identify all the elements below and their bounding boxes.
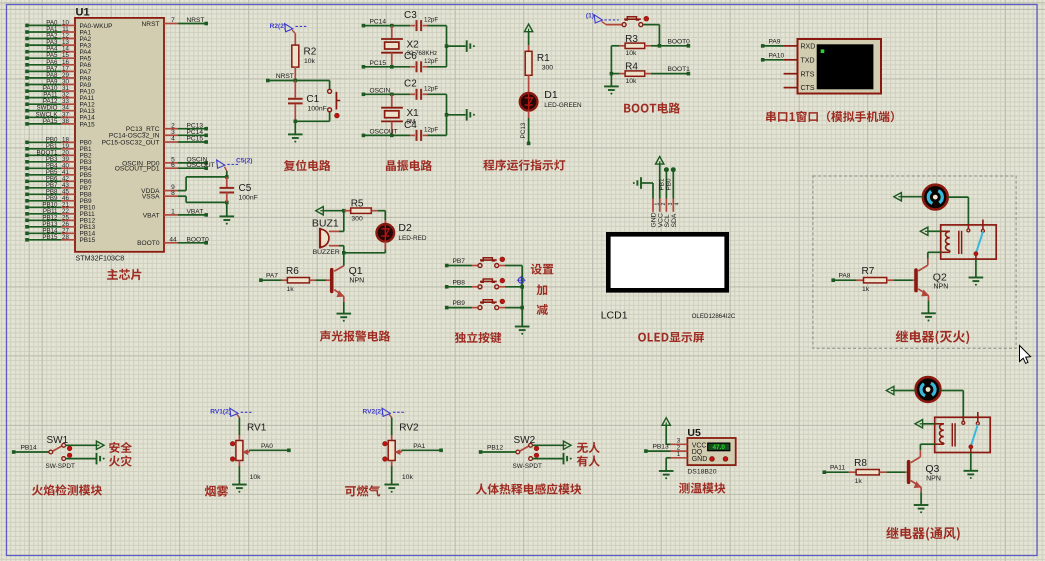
svg-text:PC14: PC14	[370, 19, 387, 26]
svg-text:Q2: Q2	[933, 271, 947, 283]
svg-text:NRST: NRST	[187, 17, 205, 24]
svg-text:C3: C3	[404, 10, 417, 21]
pin PA11 (32) wire	[25, 96, 29, 100]
IC U5 DS18B20 body	[687, 438, 735, 465]
svg-text:28: 28	[62, 234, 69, 241]
svg-text:PB15: PB15	[80, 237, 96, 244]
pin PA4 (14) wire	[25, 50, 29, 54]
pot RV1 to ground	[238, 461, 240, 467]
capacitor C1 100nF	[294, 81, 296, 98]
svg-text:PA1: PA1	[413, 443, 425, 450]
svg-text:OLED12864I2C: OLED12864I2C	[692, 313, 736, 320]
svg-text:LCD1: LCD1	[601, 310, 628, 322]
svg-text:1k: 1k	[862, 286, 870, 293]
label shengguang baojing dianlu	[320, 330, 390, 341]
label chengxu yunxing zhishideng	[483, 159, 565, 170]
power arrow left of R5	[316, 207, 324, 215]
label BOOT dianlu	[624, 102, 680, 113]
switch SW1 SW-SPDT	[49, 450, 53, 454]
svg-text:NPN: NPN	[926, 475, 941, 482]
svg-text:7: 7	[171, 17, 175, 24]
resistor R6 1k	[259, 278, 263, 282]
svg-text:PB0: PB0	[666, 178, 673, 191]
terminal pin RTS	[784, 73, 798, 75]
pin PA7 (17) wire	[25, 70, 29, 74]
svg-text:Q3: Q3	[925, 463, 939, 475]
svg-text:BOOT1: BOOT1	[668, 66, 691, 73]
label jidianqi miehuo	[896, 330, 969, 344]
pin PB14 (27) wire	[25, 232, 29, 236]
svg-text:PB15: PB15	[42, 234, 58, 241]
svg-text:SW-SPDT: SW-SPDT	[513, 463, 542, 470]
svg-text:RV2: RV2	[399, 422, 419, 433]
relay coil	[941, 230, 950, 232]
relay RL1 box	[941, 225, 997, 259]
svg-text:12pF: 12pF	[424, 17, 438, 24]
svg-text:TXD: TXD	[801, 57, 815, 64]
net PB12 wire	[479, 450, 483, 454]
pin OSCIN_PD0 (5)	[164, 162, 178, 164]
svg-text:RV1: RV1	[247, 422, 267, 433]
svg-text:VSSA: VSSA	[142, 194, 160, 201]
svg-text:SDA: SDA	[671, 213, 678, 227]
label anquan	[109, 442, 132, 453]
net PA9 wire	[761, 44, 765, 48]
motor (fan) M1	[923, 185, 948, 210]
svg-text:PC15: PC15	[370, 60, 387, 67]
net PB9 wire	[445, 306, 449, 310]
svg-text:OSCOUT_PD1: OSCOUT_PD1	[115, 166, 160, 173]
svg-text:C6: C6	[404, 51, 417, 62]
pin PB11 (22) wire	[25, 212, 29, 216]
pot RV2 to ground	[391, 461, 393, 467]
svg-text:SW2: SW2	[514, 435, 536, 446]
svg-text:12pF: 12pF	[424, 58, 438, 65]
svg-text:PB8: PB8	[453, 279, 466, 286]
svg-text:47.0: 47.0	[712, 444, 725, 451]
capacitor C4 12pF	[410, 134, 415, 136]
svg-text:LED-GREEN: LED-GREEN	[544, 102, 582, 109]
potentiometer RV1 10k	[238, 418, 240, 436]
power arrow left of motor	[894, 193, 902, 201]
resistor R3 10k	[611, 45, 619, 47]
svg-text:1k: 1k	[287, 286, 295, 293]
capacitor C6 12pF	[410, 66, 415, 68]
ground below Q3	[914, 504, 929, 506]
svg-text:C5: C5	[239, 183, 252, 194]
svg-text:PA7: PA7	[266, 273, 278, 280]
svg-text:PB9: PB9	[453, 300, 466, 307]
svg-text:R8: R8	[854, 458, 867, 469]
pin PB10 (21) wire	[25, 206, 29, 210]
svg-text:R5: R5	[351, 198, 364, 209]
svg-text:OSCOUT: OSCOUT	[187, 162, 215, 169]
pin BOOT1 (20) wire	[25, 154, 29, 158]
svg-text:NRST: NRST	[142, 21, 160, 28]
relay RL2 common to ground	[970, 449, 972, 453]
net PB7 wire	[445, 264, 449, 268]
pin PB13 (26) wire	[25, 225, 29, 229]
ground below Q2	[921, 312, 936, 314]
OLED pin SCL	[665, 199, 667, 212]
svg-text:PB12: PB12	[487, 445, 503, 452]
resistor R1 300	[528, 45, 530, 51]
net PB1 wire (SCL)	[665, 170, 667, 199]
svg-text:PC13: PC13	[520, 122, 527, 138]
power arrow left of RL2 coil	[915, 420, 923, 428]
svg-text:BUZ1: BUZ1	[312, 218, 339, 230]
net PA1 wire	[402, 449, 442, 451]
power arrow left of motor M2	[886, 386, 894, 394]
svg-text:U1: U1	[76, 7, 90, 19]
temperature readout display	[708, 443, 730, 451]
push button PB7	[472, 265, 478, 267]
pin PA6 (16) wire	[25, 63, 29, 67]
svg-text:PA9: PA9	[769, 39, 781, 46]
svg-text:VBAT: VBAT	[143, 212, 160, 219]
pin PB8 (45) wire	[25, 193, 29, 197]
svg-text:PB14: PB14	[21, 445, 37, 452]
svg-text:PA8: PA8	[839, 273, 851, 280]
net PB8 wire	[445, 285, 449, 289]
mouse cursor	[1020, 346, 1031, 364]
svg-text:X1: X1	[407, 108, 420, 119]
svg-text:12pF: 12pF	[424, 85, 438, 92]
wire button to C1 bottom	[294, 120, 298, 124]
pin PB9 (46) wire	[25, 199, 29, 203]
terminal pin RXD	[784, 45, 798, 47]
OLED GND wire to ground	[652, 183, 654, 199]
pin PA2 (12) wire	[25, 37, 29, 41]
dashed selection box	[813, 176, 1016, 348]
label huozai	[109, 455, 132, 466]
svg-text:4: 4	[171, 136, 175, 143]
pin PA5 (15) wire	[25, 56, 29, 60]
transistor Q1 NPN	[343, 253, 345, 266]
svg-text:C2: C2	[404, 79, 417, 90]
label jia	[537, 284, 548, 295]
svg-text:PA15: PA15	[80, 121, 96, 128]
OLED pin VCC	[659, 199, 661, 212]
svg-text:BUZZER: BUZZER	[313, 249, 340, 256]
svg-text:PC15: PC15	[187, 136, 204, 143]
net BOOT0 wire	[659, 45, 688, 47]
pin PB3 (39) wire	[25, 160, 29, 164]
svg-text:X2: X2	[407, 40, 420, 51]
ground below C5	[226, 202, 228, 216]
svg-text:1: 1	[171, 209, 175, 216]
svg-text:PA15: PA15	[43, 118, 58, 125]
wire R3 to R4	[610, 46, 612, 74]
net PC15 wire	[362, 65, 366, 69]
terminal pin TXD	[784, 59, 798, 61]
IC U1 STM32F103C8 body	[75, 18, 164, 252]
label OLED xianshiping	[638, 332, 704, 343]
pin PA3 (13) wire	[25, 43, 29, 47]
net NRST wire	[266, 79, 270, 83]
relay RL2 coil	[935, 423, 944, 425]
wire motor to relay	[948, 196, 969, 198]
label wuren	[577, 442, 600, 453]
net PC14 wire	[362, 24, 366, 28]
svg-text:6: 6	[171, 162, 175, 169]
buzzer BUZ1	[343, 211, 345, 232]
capacitor C5 100nF	[225, 175, 229, 179]
label 烟雾	[205, 485, 228, 496]
wire SW1 to ground (rotated)	[66, 458, 96, 460]
svg-text:10k: 10k	[250, 474, 262, 481]
relay RL2 contact pins	[962, 417, 964, 421]
wire D1 to PC13 net	[528, 111, 530, 118]
svg-text:38: 38	[62, 118, 69, 125]
indicator dots on U5	[710, 457, 715, 462]
net PA0 wire	[249, 449, 289, 451]
label jidianqi tongfeng	[886, 527, 959, 541]
svg-text:4: 4	[675, 203, 681, 206]
svg-text:10k: 10k	[626, 78, 638, 85]
pin PA12 (33) wire	[25, 102, 29, 106]
wire to reset button	[329, 81, 331, 90]
label chuankou1 chuangkou	[766, 111, 894, 122]
power arrow left of coil	[920, 227, 928, 235]
pin PB0 (18) wire	[25, 141, 29, 145]
svg-text:BOOT0: BOOT0	[137, 240, 160, 247]
crystal X1 8M	[391, 94, 393, 107]
svg-text:LED-RED: LED-RED	[398, 235, 426, 242]
resistor R8 1k	[823, 470, 827, 474]
transistor Q2 NPN	[928, 251, 941, 253]
svg-text:GND: GND	[692, 456, 708, 463]
resistor R2 10k	[294, 34, 296, 46]
pin PB1 (19) wire	[25, 147, 29, 151]
push button (BOOT)	[606, 24, 622, 26]
pin PA10 (31) wire	[25, 89, 29, 93]
U5 pin 3 VCC wire to power	[671, 443, 688, 445]
svg-text:RV2(2): RV2(2)	[363, 409, 384, 416]
pin PB12 (25) wire	[25, 219, 29, 223]
pin PB5 (41) wire	[25, 173, 29, 177]
label shezhi	[531, 264, 554, 275]
label renti mokuai	[476, 483, 582, 494]
relay RL2 lever (cyan)	[971, 424, 978, 446]
push button PB9	[472, 307, 478, 309]
resistor R4 10k	[611, 73, 619, 75]
pin PB15 (28) wire	[25, 238, 29, 242]
wire SW1 to power arrow	[66, 444, 96, 446]
svg-text:RV1(2): RV1(2)	[210, 409, 231, 416]
relay common to ground	[975, 256, 977, 260]
svg-text:R3: R3	[625, 34, 638, 45]
svg-text:SW1: SW1	[47, 435, 69, 446]
pin VSSA (8) wire to C5	[164, 195, 178, 197]
wire SW2 to power arrow	[533, 444, 564, 446]
svg-text:C5(2): C5(2)	[236, 158, 253, 165]
svg-text:D1: D1	[544, 89, 558, 101]
svg-text:C4: C4	[404, 120, 417, 131]
svg-text:PA10: PA10	[769, 53, 785, 60]
wire caps to ground	[446, 26, 448, 67]
svg-text:8: 8	[171, 190, 175, 197]
ground (rotated)	[466, 109, 468, 121]
U5 pin 1 GND wire to ground	[671, 457, 688, 459]
terminal pin CTS	[784, 87, 798, 89]
svg-text:(1): (1)	[586, 13, 594, 20]
svg-text:Q1: Q1	[349, 265, 363, 277]
svg-text:PB13: PB13	[653, 444, 669, 451]
LED D1 LED-GREEN	[520, 93, 538, 111]
svg-text:1: 1	[677, 451, 681, 458]
svg-text:300: 300	[351, 215, 363, 222]
svg-text:RXD: RXD	[801, 44, 816, 51]
button bus wire	[521, 266, 523, 327]
svg-text:100nF: 100nF	[308, 105, 327, 112]
ground (rotated)	[466, 40, 468, 52]
push button (reset)	[328, 89, 332, 93]
wire button to BOOT0 node	[643, 24, 660, 26]
svg-text:BOOT0: BOOT0	[187, 236, 210, 243]
net PB14 wire	[12, 450, 16, 454]
power arrow above R1	[524, 24, 532, 32]
wire motor M2 to relay	[941, 390, 964, 392]
label fuweidianlu	[284, 160, 331, 171]
pin SWCLK (37) wire	[25, 116, 29, 120]
svg-text:STM32F103C8: STM32F103C8	[76, 253, 125, 262]
svg-text:100nF: 100nF	[239, 195, 258, 202]
svg-text:U5: U5	[687, 427, 701, 439]
svg-text:R2: R2	[304, 47, 317, 58]
svg-text:12pF: 12pF	[424, 126, 438, 133]
pin PC13 (2)	[164, 128, 178, 130]
net OSCOUT wire	[362, 134, 366, 138]
ground below R3/R4 node	[610, 74, 612, 87]
net PA10 wire	[761, 58, 765, 62]
label huoyan jiance mokuai	[32, 484, 102, 495]
svg-text:10k: 10k	[304, 58, 316, 65]
LED D2 LED-RED	[384, 211, 386, 220]
svg-text:BOOT0: BOOT0	[668, 38, 691, 45]
label cewen mokuai	[679, 482, 726, 493]
label 可燃气	[345, 485, 380, 496]
resistor R5 300	[344, 210, 351, 212]
capacitor C2 12pF	[410, 93, 415, 95]
svg-text:R2(2): R2(2)	[270, 23, 287, 30]
svg-text:R4: R4	[625, 62, 638, 73]
junction node	[342, 251, 346, 255]
svg-text:R7: R7	[862, 266, 875, 277]
svg-text:NRST: NRST	[276, 73, 294, 80]
svg-text:D2: D2	[398, 222, 412, 234]
net PB0 wire (SDA)	[672, 170, 674, 199]
wire SW2 to ground (rotated)	[533, 458, 564, 460]
svg-text:CTS: CTS	[801, 85, 815, 92]
pin PC14 (3)	[164, 134, 178, 136]
potentiometer RV2 10k	[391, 418, 393, 436]
LCD1 OLED display body	[608, 234, 726, 290]
pin PC15 (4)	[164, 141, 178, 143]
svg-text:R6: R6	[286, 266, 299, 277]
pin PB7 (43) wire	[25, 186, 29, 190]
OLED pin GND	[652, 199, 654, 212]
ground below Q1	[337, 313, 352, 315]
svg-text:300: 300	[542, 65, 554, 72]
pin PA9 (30) wire	[25, 83, 29, 87]
motor (fan) M2	[916, 377, 941, 402]
wire caps to ground	[446, 94, 448, 135]
blue origin marker	[518, 277, 524, 283]
pin NRST (7)	[164, 23, 178, 25]
transistor Q3 NPN	[920, 443, 934, 445]
pin PB6 (42) wire	[25, 180, 29, 184]
relay lever (cyan)	[976, 232, 983, 253]
pin PA0 (10) wire	[25, 24, 29, 28]
svg-text:NPN: NPN	[349, 277, 364, 284]
pin PA1 (11) wire	[25, 30, 29, 34]
switch SW2 SW-SPDT	[516, 450, 520, 454]
push button PB8	[472, 286, 478, 288]
capacitor C3 12pF	[410, 25, 415, 27]
svg-text:10k: 10k	[626, 50, 638, 57]
resistor R7 1k	[831, 278, 835, 282]
ground below buttons	[515, 326, 530, 328]
svg-text:R1: R1	[537, 53, 550, 64]
pin PB4 (40) wire	[25, 167, 29, 171]
ground below C1	[294, 121, 296, 134]
pin VBAT (1)	[164, 214, 178, 216]
virtual terminal box	[798, 39, 882, 94]
crystal X2 32.768KHz	[391, 26, 393, 39]
svg-text:44: 44	[169, 236, 177, 243]
pin BOOT0 (44)	[164, 242, 178, 244]
svg-text:VBAT: VBAT	[187, 209, 204, 216]
svg-text:PA11: PA11	[830, 465, 845, 472]
svg-text:C1: C1	[306, 94, 319, 105]
svg-text:SW-SPDT: SW-SPDT	[46, 463, 75, 470]
U5 pin 2 DQ wire to PB13	[671, 450, 688, 452]
net OSCIN wire	[362, 93, 366, 97]
pin VDDA (9) wire to C5	[164, 190, 178, 192]
svg-text:PA0: PA0	[261, 443, 273, 450]
svg-text:1k: 1k	[855, 478, 863, 485]
label zhuxinpian	[107, 269, 141, 280]
svg-text:10k: 10k	[402, 474, 414, 481]
label jingzhendianlu	[386, 160, 432, 171]
label youren	[577, 455, 600, 466]
svg-text:NPN: NPN	[934, 284, 949, 291]
svg-text:RTS: RTS	[801, 71, 815, 78]
pin PA8 (29) wire	[25, 76, 29, 80]
relay contact pins	[967, 225, 969, 229]
label jian	[537, 304, 548, 315]
svg-text:DS18B20: DS18B20	[687, 469, 716, 476]
svg-text:OSCIN: OSCIN	[370, 87, 391, 94]
svg-text:PC15-OSC32_OUT: PC15-OSC32_OUT	[102, 139, 160, 146]
pin PA15 (38) wire	[25, 122, 29, 126]
svg-text:PB7: PB7	[453, 258, 466, 265]
label duli anjian	[455, 332, 502, 343]
pin SWDIO (34) wire	[25, 109, 29, 113]
OLED VCC wire to power	[659, 164, 661, 198]
relay RL2 box	[935, 417, 991, 452]
OLED pin SDA	[672, 199, 674, 212]
pin OSCOUT_PD1 (6)	[164, 167, 178, 169]
